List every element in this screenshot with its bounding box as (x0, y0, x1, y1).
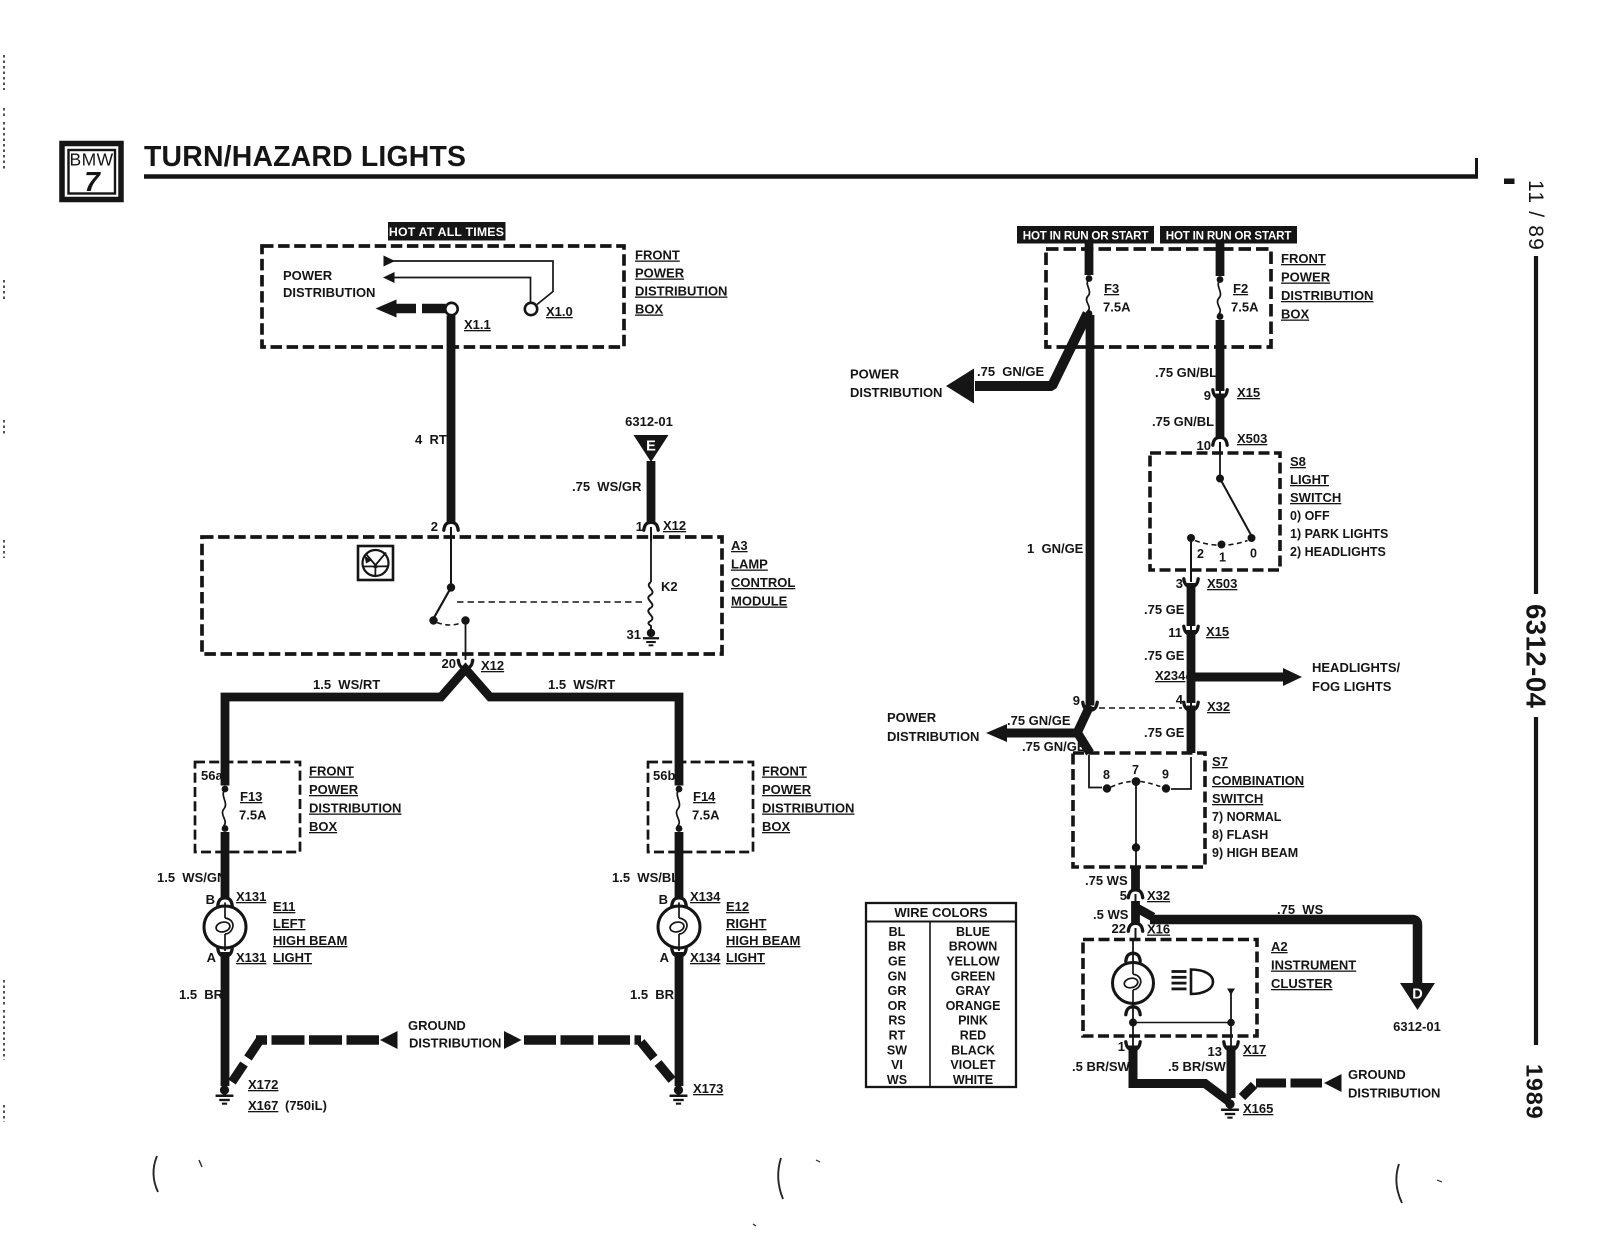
title underline rule (144, 158, 1515, 184)
connector pin 11 X15 (1184, 626, 1198, 634)
svg-text:A: A (207, 950, 217, 965)
S7 wire to box edge (1135, 850, 1137, 866)
label HEADLIGHTS/ FOG LIGHTS (1312, 660, 1401, 694)
A2 bulb lead in (1132, 940, 1134, 962)
S8 throw dot 2 (1187, 534, 1195, 542)
svg-text:11: 11 (1168, 625, 1182, 640)
wire into fuse F13 (221, 762, 230, 786)
label X167 (750iL) (248, 1098, 327, 1113)
svg-text:BL: BL (889, 925, 906, 939)
S8 throw arc (dashed) (1195, 541, 1248, 546)
svg-text:FRONT: FRONT (762, 764, 807, 779)
fuse F14 (676, 786, 683, 793)
svg-text:1) PARK LIGHTS: 1) PARK LIGHTS (1290, 527, 1388, 541)
svg-text:LIGHT: LIGHT (726, 950, 765, 965)
wire junction to power distribution (thick) (986, 706, 1090, 754)
wire .75 WS/GR from E to A3 pin 1 (647, 461, 656, 524)
connector pin 22 X16 (1128, 923, 1142, 931)
wire from S8 pin 2 down (1190, 541, 1192, 582)
svg-text:X32: X32 (1207, 699, 1230, 714)
S8 position labels 2 1 0 (1197, 547, 1257, 565)
S7 combination switch box (dashed) (1073, 753, 1205, 867)
node X1.0 (terminal circle) (525, 303, 537, 315)
svg-text:HIGH BEAM: HIGH BEAM (273, 933, 347, 948)
svg-text:HOT AT ALL TIMES: HOT AT ALL TIMES (389, 225, 504, 239)
connector B X134 (672, 898, 686, 906)
svg-text:X172: X172 (248, 1077, 278, 1092)
svg-text:7.5A: 7.5A (1231, 300, 1259, 315)
svg-text:1989: 1989 (1522, 1064, 1548, 1119)
svg-text:X503: X503 (1207, 576, 1237, 591)
svg-text:.75 WS: .75 WS (1085, 873, 1128, 888)
svg-text:X234: X234 (1155, 668, 1186, 683)
svg-text:S8: S8 (1290, 454, 1306, 469)
svg-text:7: 7 (1132, 763, 1139, 777)
svg-text:RIGHT: RIGHT (726, 916, 767, 931)
svg-text:WS: WS (887, 1073, 907, 1087)
svg-text:5: 5 (1120, 888, 1127, 903)
svg-text:X16: X16 (1147, 922, 1170, 937)
svg-text:.5 BR/SW: .5 BR/SW (1072, 1059, 1131, 1074)
svg-text:CLUSTER: CLUSTER (1271, 976, 1333, 991)
front power distribution box (top right, dashed) (1046, 249, 1271, 347)
svg-text:HEADLIGHTS/: HEADLIGHTS/ (1312, 660, 1401, 675)
svg-text:POWER: POWER (1281, 270, 1331, 285)
svg-text:DISTRIBUTION: DISTRIBUTION (850, 385, 942, 400)
svg-text:DISTRIBUTION: DISTRIBUTION (283, 285, 375, 300)
S7 wiper arcs (dashed) (1111, 782, 1162, 788)
svg-text:COMBINATION: COMBINATION (1212, 773, 1304, 788)
svg-text:7.5A: 7.5A (239, 808, 267, 823)
svg-text:.75 WS: .75 WS (1277, 902, 1324, 917)
junction X234 (1186, 672, 1196, 682)
S8 throw dot 0 (1248, 534, 1256, 542)
A2 leads to pins 1 and 13 (1132, 1024, 1134, 1046)
svg-text:6312-01: 6312-01 (1393, 1019, 1441, 1034)
svg-text:10: 10 (1197, 438, 1211, 453)
svg-text:PINK: PINK (958, 1014, 988, 1028)
label HOT IN RUN OR START (F3) (1017, 226, 1154, 244)
label POWER DISTRIBUTION (top left box) (283, 268, 375, 300)
svg-text:F14: F14 (693, 789, 716, 804)
label FRONT POWER DISTRIBUTION BOX (56b) (762, 764, 854, 835)
svg-text:SWITCH: SWITCH (1290, 490, 1341, 505)
front power distribution box (top left, dashed) (262, 246, 624, 347)
svg-text:DISTRIBUTION: DISTRIBUTION (1348, 1086, 1440, 1101)
relay coil K2 (650, 541, 652, 582)
svg-text:X167: X167 (248, 1098, 278, 1113)
svg-text:GRAY: GRAY (956, 984, 992, 998)
bulb E11 left high beam light (204, 906, 246, 948)
wire .75 GE into S7 (1187, 706, 1196, 754)
svg-text:.75 GE: .75 GE (1144, 648, 1185, 663)
wire 4 RT from X1.1 down to A3 pin 2 (447, 316, 456, 524)
wire .75 WS (S7 to X32 pin 5) (1131, 867, 1140, 891)
wire .75 GE (X503 to X15) (1187, 583, 1196, 626)
svg-text:FRONT: FRONT (309, 764, 354, 779)
svg-text:A2: A2 (1271, 939, 1288, 954)
svg-text:X173: X173 (693, 1081, 723, 1096)
svg-text:RED: RED (960, 1029, 986, 1043)
svg-text:20: 20 (442, 656, 456, 671)
svg-text:13: 13 (1208, 1044, 1222, 1059)
svg-text:0: 0 (1250, 547, 1257, 561)
svg-text:.75 GE: .75 GE (1144, 602, 1185, 617)
svg-text:4 RT: 4 RT (415, 432, 447, 447)
svg-text:LIGHT: LIGHT (273, 950, 312, 965)
svg-text:8: 8 (1103, 768, 1110, 782)
svg-text:LIGHT: LIGHT (1290, 472, 1329, 487)
svg-text:POWER: POWER (762, 782, 812, 797)
wire .5 WS (X32 to X16) (1131, 901, 1140, 924)
ground distribution bus (left branch, dashed) (232, 1031, 398, 1082)
svg-text:7) NORMAL: 7) NORMAL (1212, 810, 1282, 824)
label F14 7.5A (692, 789, 720, 823)
svg-text:ORANGE: ORANGE (946, 999, 1001, 1013)
svg-text:DISTRIBUTION: DISTRIBUTION (635, 284, 727, 299)
A2 bulb bottom connector arc (1126, 1007, 1140, 1015)
svg-text:WIRE COLORS: WIRE COLORS (894, 905, 987, 920)
svg-text:D: D (1412, 987, 1422, 1003)
high-beam indicator bulb (1113, 963, 1154, 1004)
S8 common contact dot (1216, 475, 1224, 483)
svg-text:CONTROL: CONTROL (731, 575, 795, 590)
svg-text:WHITE: WHITE (953, 1073, 993, 1087)
svg-text:X17: X17 (1243, 1042, 1266, 1057)
svg-text:7.5A: 7.5A (1103, 300, 1131, 315)
svg-text:7: 7 (84, 166, 101, 197)
wire .5 BR/SW from X17 to ground (1227, 1046, 1236, 1099)
svg-text:1 GN/GE: 1 GN/GE (1027, 541, 1084, 556)
wire into fuse F2 (1216, 244, 1225, 277)
svg-text:.75 GN/BL: .75 GN/BL (1155, 365, 1217, 380)
contact throw dot (right) (461, 616, 469, 624)
svg-text:.75 GN/GE: .75 GN/GE (1007, 713, 1071, 728)
relay contact common dot (447, 583, 455, 591)
svg-text:INSTRUMENT: INSTRUMENT (1271, 958, 1356, 973)
svg-text:1.5 WS/BL: 1.5 WS/BL (612, 870, 679, 885)
svg-text:9) HIGH BEAM: 9) HIGH BEAM (1212, 846, 1298, 860)
svg-text:MODULE: MODULE (731, 594, 788, 609)
margin rule upper (1534, 256, 1538, 594)
connector pin 20 X12 (458, 660, 472, 668)
label S7 COMBINATION SWITCH options (1212, 754, 1304, 860)
connector pin 9 X32 (1083, 702, 1097, 710)
svg-text:RT: RT (889, 1029, 906, 1043)
label S8 LIGHT SWITCH options (1290, 454, 1388, 559)
S8 light switch box (dashed) (1150, 453, 1280, 570)
svg-text:BOX: BOX (635, 302, 664, 317)
label E11 LEFT HIGH BEAM LIGHT (273, 899, 347, 965)
connector B X131 (218, 898, 232, 906)
fuse F2 7.5A (1217, 276, 1224, 283)
connector pin 4 X32 (1184, 702, 1198, 710)
connector pin 10 X503 (1213, 437, 1227, 445)
svg-text:A: A (660, 950, 670, 965)
svg-text:DISTRIBUTION: DISTRIBUTION (309, 801, 401, 816)
svg-text:LEFT: LEFT (273, 916, 306, 931)
svg-text:1.5 WS/RT: 1.5 WS/RT (313, 677, 380, 692)
svg-text:A3: A3 (731, 538, 748, 553)
svg-text:GROUND: GROUND (1348, 1067, 1406, 1082)
svg-text:56a: 56a (201, 768, 223, 783)
label FRONT POWER DISTRIBUTION BOX (56a) (309, 764, 401, 835)
svg-text:HOT IN RUN OR START: HOT IN RUN OR START (1023, 230, 1149, 243)
svg-text:DISTRIBUTION: DISTRIBUTION (1281, 288, 1373, 303)
svg-text:BOX: BOX (309, 819, 338, 834)
svg-text:FRONT: FRONT (635, 248, 680, 263)
svg-text:DISTRIBUTION: DISTRIBUTION (409, 1036, 501, 1051)
svg-text:F2: F2 (1233, 281, 1248, 296)
wire arrow to headlights/fog lights (1193, 668, 1302, 686)
svg-text:1.5 BR: 1.5 BR (179, 987, 224, 1002)
node X1.1 (terminal circle) (445, 303, 457, 315)
svg-text:.75 GN/BL: .75 GN/BL (1152, 414, 1214, 429)
svg-text:X12: X12 (663, 518, 686, 533)
wire: thick power distribution arrow (left) (376, 300, 446, 318)
svg-text:0) OFF: 0) OFF (1290, 509, 1330, 523)
svg-text:F3: F3 (1104, 281, 1119, 296)
label HOT IN RUN OR START (F2) (1160, 226, 1297, 244)
svg-text:OR: OR (888, 999, 907, 1013)
relay coil link (dashed) (457, 601, 644, 603)
A2 instrument cluster box (dashed) (1083, 940, 1257, 1037)
svg-text:BOX: BOX (762, 819, 791, 834)
A2 bulb top connector arc (1126, 953, 1140, 961)
wire out of fuse F14 (675, 832, 684, 899)
connector A X134 (672, 948, 686, 956)
fuse F3 7.5A (1086, 275, 1093, 282)
wire: thin feed with left arrow to X1.0 (383, 272, 531, 303)
svg-text:DISTRIBUTION: DISTRIBUTION (887, 729, 979, 744)
svg-text:BR: BR (888, 940, 906, 954)
A2 junction dot (pin 13) (1227, 1019, 1235, 1027)
margin rule lower (1534, 717, 1538, 1045)
contact throw arc (dashed) (437, 623, 462, 626)
S7 wire to contact 8 (1089, 755, 1102, 788)
connector X32 link (dashed) (1099, 707, 1182, 709)
svg-text:B: B (659, 892, 668, 907)
svg-text:1: 1 (1219, 551, 1226, 565)
svg-text:TURN/HAZARD LIGHTS: TURN/HAZARD LIGHTS (144, 141, 466, 173)
wire 1.5 BR (right) (675, 952, 684, 1086)
svg-text:.75 GE: .75 GE (1144, 725, 1185, 740)
svg-text:GN: GN (888, 969, 907, 983)
svg-text:X15: X15 (1206, 624, 1229, 639)
wire .75 GN/BL (F2 to X15) (1216, 320, 1225, 391)
svg-text:X32: X32 (1147, 888, 1170, 903)
svg-text:X134: X134 (690, 950, 721, 965)
fuse F13 (222, 786, 229, 793)
svg-text:SW: SW (887, 1043, 907, 1057)
svg-text:BLACK: BLACK (951, 1043, 995, 1057)
S8 wiper arm (1220, 479, 1251, 536)
svg-text:11 / 89: 11 / 89 (1524, 180, 1547, 251)
svg-text:1.5 WS/RT: 1.5 WS/RT (548, 677, 615, 692)
svg-text:(750iL): (750iL) (285, 1098, 327, 1113)
S7 pin labels 8 7 9 (1103, 763, 1169, 782)
BMW 7-series logo badge (62, 144, 121, 200)
ground X172 (220, 1085, 229, 1094)
svg-text:GROUND: GROUND (408, 1018, 466, 1033)
svg-text:DISTRIBUTION: DISTRIBUTION (762, 801, 854, 816)
label E12 RIGHT HIGH BEAM LIGHT (726, 899, 800, 965)
relay movable contact arm (434, 588, 451, 619)
connector pin 5 X32 (1128, 890, 1142, 898)
A2 pin 13 stub (1227, 989, 1235, 1022)
svg-text:56b: 56b (653, 768, 675, 783)
wire .75 GE (X234 to X32 pin 4) (1187, 677, 1196, 703)
connector pin 3 X503 (1184, 579, 1198, 587)
wire from contact to pin 20 (465, 621, 467, 661)
svg-text:POWER: POWER (283, 268, 333, 283)
wire colors legend table (866, 903, 1016, 1087)
svg-text:GR: GR (888, 984, 907, 998)
label FRONT POWER DISTRIBUTION BOX (top right) (1281, 251, 1373, 322)
A2 junction dot (bulb) (1129, 1019, 1137, 1027)
svg-text:1.5 WS/GN: 1.5 WS/GN (157, 870, 226, 885)
connector pin 1 X12 (644, 522, 658, 530)
svg-text:YELLOW: YELLOW (946, 954, 1000, 968)
connector pin 9 X15 (1213, 390, 1227, 398)
fuse box 56b (dashed) (648, 762, 753, 852)
svg-text:.5 BR/SW: .5 BR/SW (1168, 1059, 1227, 1074)
svg-text:LAMP: LAMP (731, 557, 768, 572)
S7 contact dot 9 (1162, 784, 1170, 792)
wire .75 GN/BL (X15 to X503) (1216, 394, 1225, 439)
svg-text:6312-01: 6312-01 (625, 414, 673, 429)
wire out of fuse F13 (221, 832, 230, 899)
label HOT AT ALL TIMES (388, 222, 506, 241)
svg-text:X15: X15 (1237, 385, 1260, 400)
svg-text:S7: S7 (1212, 754, 1228, 769)
svg-text:E11: E11 (273, 899, 295, 914)
wire into fuse F3 (1085, 244, 1094, 276)
S7 wire to contact 9 (1171, 757, 1191, 789)
high-beam indicator icon (1172, 970, 1214, 995)
svg-text:K2: K2 (661, 579, 678, 594)
ground X165 (1225, 1099, 1234, 1108)
svg-text:3: 3 (1176, 576, 1183, 591)
svg-text:POWER: POWER (309, 782, 359, 797)
lamp-module icon (steering wheel in box) (358, 546, 393, 580)
off-page triangle E (634, 435, 669, 462)
ground X173 (674, 1085, 683, 1094)
S8 throw dot 1 (1218, 541, 1226, 549)
ground (A3 internal, pin 31) (647, 629, 655, 637)
svg-text:9: 9 (1204, 388, 1211, 403)
svg-text:POWER: POWER (635, 266, 685, 281)
label F3 7.5A (1103, 281, 1131, 315)
connector pin 2 X12 (444, 522, 458, 530)
svg-text:X131: X131 (236, 950, 266, 965)
wire .75 GN/GE to power distribution (thick arrow left) (946, 314, 1088, 404)
wire .75 WS branch to ref D (1135, 907, 1418, 983)
label F2 7.5A (1231, 281, 1259, 315)
connector pin 1 (1126, 1042, 1140, 1050)
svg-text:HOT IN RUN OR START: HOT IN RUN OR START (1166, 230, 1292, 243)
label GROUND DISTRIBUTION (bottom right) (1348, 1067, 1440, 1101)
svg-text:POWER: POWER (850, 367, 900, 382)
S7 junction dot (1132, 843, 1140, 851)
svg-text:8) FLASH: 8) FLASH (1212, 828, 1268, 842)
svg-text:B: B (206, 892, 215, 907)
svg-text:2: 2 (1197, 547, 1204, 561)
svg-text:FRONT: FRONT (1281, 251, 1326, 266)
label A2 INSTRUMENT CLUSTER (1271, 939, 1356, 991)
S7 contact dot 7 (1132, 777, 1141, 786)
svg-text:.75 GN/GE: .75 GN/GE (977, 364, 1045, 379)
svg-text:VI: VI (891, 1058, 903, 1072)
wire 1 GN/GE (long, F3 down to X32) (1086, 315, 1095, 706)
wire 1.5 BR (left) (221, 952, 230, 1086)
svg-text:X1.1: X1.1 (464, 317, 491, 332)
svg-text:X1.0: X1.0 (546, 304, 573, 319)
svg-text:BROWN: BROWN (949, 940, 998, 954)
connector pin 13 X17 (1224, 1042, 1238, 1050)
svg-text:HIGH BEAM: HIGH BEAM (726, 933, 800, 948)
svg-text:BOX: BOX (1281, 307, 1310, 322)
svg-text:E: E (646, 439, 656, 455)
ground distribution bus (right branch, dashed) (504, 1031, 672, 1080)
off-page triangle D (1400, 983, 1435, 1010)
svg-text:X503: X503 (1237, 431, 1267, 446)
S7 contact dot 8 (1103, 784, 1111, 792)
svg-text:1.5 BR: 1.5 BR (630, 987, 675, 1002)
wire .5 BR/SW from pin 1 to ground (1133, 1046, 1229, 1102)
svg-text:6312-04: 6312-04 (1521, 604, 1552, 709)
svg-text:VIOLET: VIOLET (950, 1058, 996, 1072)
svg-text:1: 1 (636, 519, 643, 534)
svg-text:RS: RS (888, 1014, 905, 1028)
svg-text:FOG LIGHTS: FOG LIGHTS (1312, 679, 1392, 694)
svg-text:2) HEADLIGHTS: 2) HEADLIGHTS (1290, 545, 1386, 559)
svg-text:7.5A: 7.5A (692, 808, 720, 823)
svg-text:22: 22 (1112, 921, 1126, 936)
wire into fuse F14 (675, 762, 684, 786)
svg-text:1: 1 (1118, 1039, 1125, 1054)
connector A X131 (218, 948, 232, 956)
svg-text:2: 2 (431, 519, 438, 534)
wire 1.5 WS/RT Y-split bus (225, 669, 679, 763)
svg-text:X134: X134 (690, 889, 721, 904)
label POWER DISTRIBUTION (upper right) (850, 367, 942, 401)
relay contact: line from pin 2 (450, 541, 452, 584)
label F13 7.5A (239, 789, 267, 823)
svg-text:GREEN: GREEN (951, 969, 995, 983)
A2 internal link wire (1133, 1022, 1231, 1024)
svg-text:9: 9 (1162, 768, 1169, 782)
bulb E12 right high beam light (658, 906, 700, 948)
S8 switch common line (1219, 455, 1221, 476)
ground distribution bus (bottom right, dashed) (1242, 1074, 1342, 1097)
svg-text:F13: F13 (240, 789, 262, 804)
svg-text:9: 9 (1073, 693, 1080, 708)
S7 wiper line down (1135, 784, 1137, 845)
contact throw dot (left) (429, 616, 437, 624)
svg-text:X131: X131 (236, 889, 266, 904)
svg-text:.5 WS: .5 WS (1093, 907, 1129, 922)
A2 bulb lead out (1132, 1003, 1134, 1021)
wire: thin feed with right arrow to X1.0 (384, 256, 554, 305)
fuse box 56a (dashed) (195, 762, 300, 852)
label GROUND DISTRIBUTION (center) (408, 1018, 501, 1051)
svg-text:SWITCH: SWITCH (1212, 791, 1263, 806)
A3 lamp control module box (dashed) (202, 537, 722, 654)
svg-text:BLUE: BLUE (956, 925, 990, 939)
label POWER DISTRIBUTION (lower right) (887, 710, 979, 744)
svg-text:GE: GE (888, 954, 906, 968)
